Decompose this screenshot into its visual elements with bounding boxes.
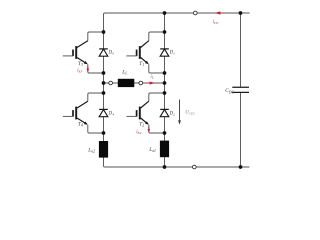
wire left leg rail [103,14,105,141]
wire T4 emitter to rail [88,125,104,133]
transistor T2 (IGBT) [137,101,149,125]
svg-text:D2: D2 [169,112,175,117]
wire T2 collector jog to rail [149,93,165,101]
terminal DC+ input (open circle) [193,11,197,15]
svg-text:D1: D1 [169,50,175,55]
inductor L_sigma2 [99,141,108,158]
capacitor C_DC [232,87,249,92]
wire right leg rail [164,13,166,141]
inductor L_L [118,79,135,87]
wire T3 gate lead [63,55,73,57]
current arrow i_E3 [87,66,90,72]
junction capacitor top node [239,11,243,15]
svg-text:UCE2: UCE2 [185,111,195,116]
current arrow i_DC [215,11,224,14]
junction right leg collector node [163,30,167,34]
junction right leg bottom node [163,165,167,169]
wire L_sigma1 to bottom rail [164,157,166,167]
transistor T1 (IGBT) [137,41,149,65]
wire T2 emitter to rail [149,125,165,133]
wire top DC+ rail [104,13,250,14]
junction right leg lower collector node [163,91,167,95]
junction left leg collector node [102,30,106,34]
svg-text:D4: D4 [108,112,114,117]
junction left leg midpoint node [102,81,106,85]
svg-text:D3: D3 [108,50,114,55]
wire T1 collector jog to rail [149,32,165,41]
junction right leg midpoint node [163,81,167,85]
wire capacitor top branch [240,13,242,87]
current arrow i_L [145,81,155,84]
diode D4 [99,109,108,116]
wire T3 collector jog to rail [88,32,104,41]
terminal load right (open circle) [139,81,143,85]
inductor L_sigma1 [160,141,169,158]
diode D3 [99,49,108,56]
terminal DC- input (open circle) [192,165,196,169]
wire T1 gate lead [126,55,136,57]
wire bottom rail [104,158,250,168]
wire T4 gate lead [63,115,73,117]
svg-text:iL: iL [150,75,153,80]
wire load branch (midpoint to midpoint) [104,82,165,84]
junction left leg lower collector node [102,91,106,95]
wire T1 emitter to rail [149,64,165,73]
transistor T3 (IGBT) [73,41,88,65]
junction right leg top node [163,11,167,15]
svg-text:iE3: iE3 [77,69,82,74]
voltage arrow U_CE2 [178,100,181,125]
junction left leg emitter node [102,71,106,75]
wire T2 gate lead [126,115,136,117]
terminal load left (open circle) [109,81,113,85]
junction right leg emitter node [163,71,167,75]
transistor T4 (IGBT) [73,101,88,125]
wire T3 emitter to rail [88,64,104,73]
svg-text:iE2: iE2 [136,130,141,135]
svg-text:iDC: iDC [213,20,220,25]
current arrow i_E2 [148,127,151,133]
diode D2 [160,109,169,116]
junction right leg lower emitter node [163,131,167,135]
wire capacitor bottom branch [240,92,242,167]
diode D1 [160,49,169,56]
junction left leg lower emitter node [102,131,106,135]
junction capacitor bottom node [239,165,243,169]
wire T4 collector jog to rail [88,93,104,101]
